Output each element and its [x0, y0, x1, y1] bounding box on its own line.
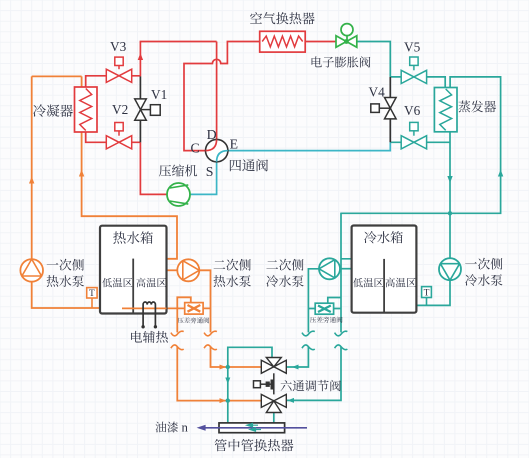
wire: air coil to EEV [305, 41, 336, 43]
wire: E port to V6/V4 junction [228, 142, 390, 150]
six-way regulating valve lower [261, 394, 286, 412]
secondary cold water pump [319, 258, 340, 279]
wire: C port path with hop over D riser [184, 42, 260, 151]
wire: hot primary right riser x=81.6 and return to tank [82, 76, 177, 258]
wire: evaporator bottom down to primary cold pump [449, 132, 451, 258]
wire: hot primary left riser x=31.7 [32, 76, 102, 308]
cold pressure-differential bypass valve [315, 303, 333, 314]
svg-text:n: n [182, 421, 189, 435]
svg-text:S: S [206, 164, 214, 179]
flow arrow down x=227.8 [225, 378, 230, 385]
primary hot water pump [20, 259, 43, 282]
hot bypass pipe re-entering tank [122, 307, 167, 309]
cold temperature sensor T [426, 298, 428, 306]
label cold tank [364, 231, 403, 243]
svg-text:T: T [89, 289, 95, 299]
flow arrow up x=500.6 [498, 170, 503, 177]
wire: hot bypass horizontal y=308.4 [122, 307, 211, 309]
wire: secondary cold pump suction x=308.4 riser to upper six-way [286, 269, 319, 367]
label oil line [155, 422, 178, 433]
svg-text:D: D [207, 127, 217, 142]
wire: secondary hot pump discharge down x=210.5 [199, 270, 261, 367]
six-way regulating valve upper [261, 358, 286, 374]
label six-way valve [281, 380, 341, 391]
condenser [75, 87, 98, 132]
flow arrows into six-way from right [292, 365, 299, 370]
wire: black leg through V1 [139, 76, 141, 142]
junction dots on x=227.8 [226, 365, 230, 369]
flow arrow up on x=31.7 [29, 177, 34, 184]
svg-text:T: T [424, 289, 430, 299]
label hot tank [113, 231, 153, 243]
compressor [167, 183, 190, 206]
wire: hot primary loop top header y=76.4 [32, 75, 82, 77]
wire: evaporator top to right header [340, 77, 500, 213]
label hot tank zones [102, 278, 132, 287]
label condenser [33, 104, 73, 117]
wire: hot bypass branch x=177.3 down to lower six-way port [177, 297, 261, 400]
flow arrow down x=450 [447, 176, 452, 183]
valve V4 [379, 107, 390, 109]
wire: x=140.4 down to compressor [140, 142, 167, 194]
wire: secondary hot pump suction from tank [167, 269, 178, 271]
cold water tank [352, 226, 417, 313]
label air heat exchanger [250, 12, 315, 24]
wire: primary cold pump discharge to tank right [416, 280, 450, 305]
primary cold water pump [439, 258, 461, 280]
label secondary cold pump [266, 259, 303, 271]
wire: compressor discharge to S port [190, 162, 217, 195]
label EEV [312, 56, 371, 67]
valve V1 [141, 109, 151, 111]
wire: cold bypass box stubs [308, 298, 341, 309]
wire: lower six-way bottom port to HX [273, 413, 275, 423]
svg-text:V2: V2 [112, 102, 128, 117]
svg-text:E: E [230, 136, 238, 151]
svg-text:V6: V6 [404, 103, 421, 118]
valve V6 [413, 131, 415, 136]
label primary hot pump [47, 259, 84, 271]
wire: top rail to four-way D port [140, 42, 217, 140]
wire: EEV outlet to V5 junction [357, 42, 391, 77]
evaporator [434, 88, 457, 132]
svg-text:C: C [191, 140, 200, 155]
label tube-in-tube HX [215, 439, 294, 451]
six-way valve stem and actuator [273, 373, 275, 394]
svg-text:V3: V3 [110, 39, 127, 54]
svg-text:V4: V4 [369, 85, 386, 100]
electronic expansion valve EEV [341, 24, 353, 36]
air heat exchanger coil [260, 31, 306, 52]
tube-in-tube heat exchanger [219, 423, 285, 433]
oil line through exchanger [205, 427, 307, 429]
valve V2 [118, 131, 120, 136]
hot pressure-differential bypass valve [185, 303, 203, 315]
flow arrow up on x=81.6 [79, 170, 84, 177]
wire: condenser bottom to V2 [86, 132, 141, 142]
label compressor [159, 165, 197, 177]
wire: secondary cold pump to tank [340, 268, 352, 270]
wire: V3 branch to condenser top [86, 76, 141, 87]
label primary cold pump [465, 258, 502, 270]
wire: V5 rail to evaporator top [390, 77, 445, 88]
label evaporator [458, 100, 496, 112]
hot temperature sensor T [91, 298, 93, 308]
four-way valve [206, 139, 228, 161]
wire: six-way top port loop down to HX [228, 347, 272, 423]
break marks cold bypass lines [302, 331, 315, 336]
label secondary hot pump [214, 259, 251, 271]
wire: V6 rail to evaporator bottom [390, 141, 450, 143]
valve V3 [118, 66, 120, 70]
label four-way valve [230, 159, 268, 171]
hot water tank [100, 226, 167, 314]
valve V5 [413, 65, 415, 70]
label cold bypass valve [310, 317, 342, 323]
electric auxiliary heater [143, 302, 155, 326]
label electric heater [131, 331, 168, 343]
wire: riser x=140.4 above V3 [139, 42, 141, 77]
wire: black leg through V4 [389, 77, 391, 142]
label cold tank zones [353, 278, 383, 287]
svg-text:V5: V5 [404, 39, 421, 54]
label hot bypass valve [178, 317, 209, 323]
break marks hot bypass lines [171, 331, 184, 336]
wire: cold feed drop x=341 into tank left + bypass riser [286, 213, 351, 400]
flow arrow into upper six-way valve [220, 365, 227, 370]
svg-text:V1: V1 [151, 87, 167, 102]
flow marks inside exchanger [247, 424, 258, 427]
secondary hot water pump [177, 259, 199, 281]
flow arrow into lower six-way valve [220, 398, 227, 403]
junction dot y=213.3 [448, 211, 452, 215]
